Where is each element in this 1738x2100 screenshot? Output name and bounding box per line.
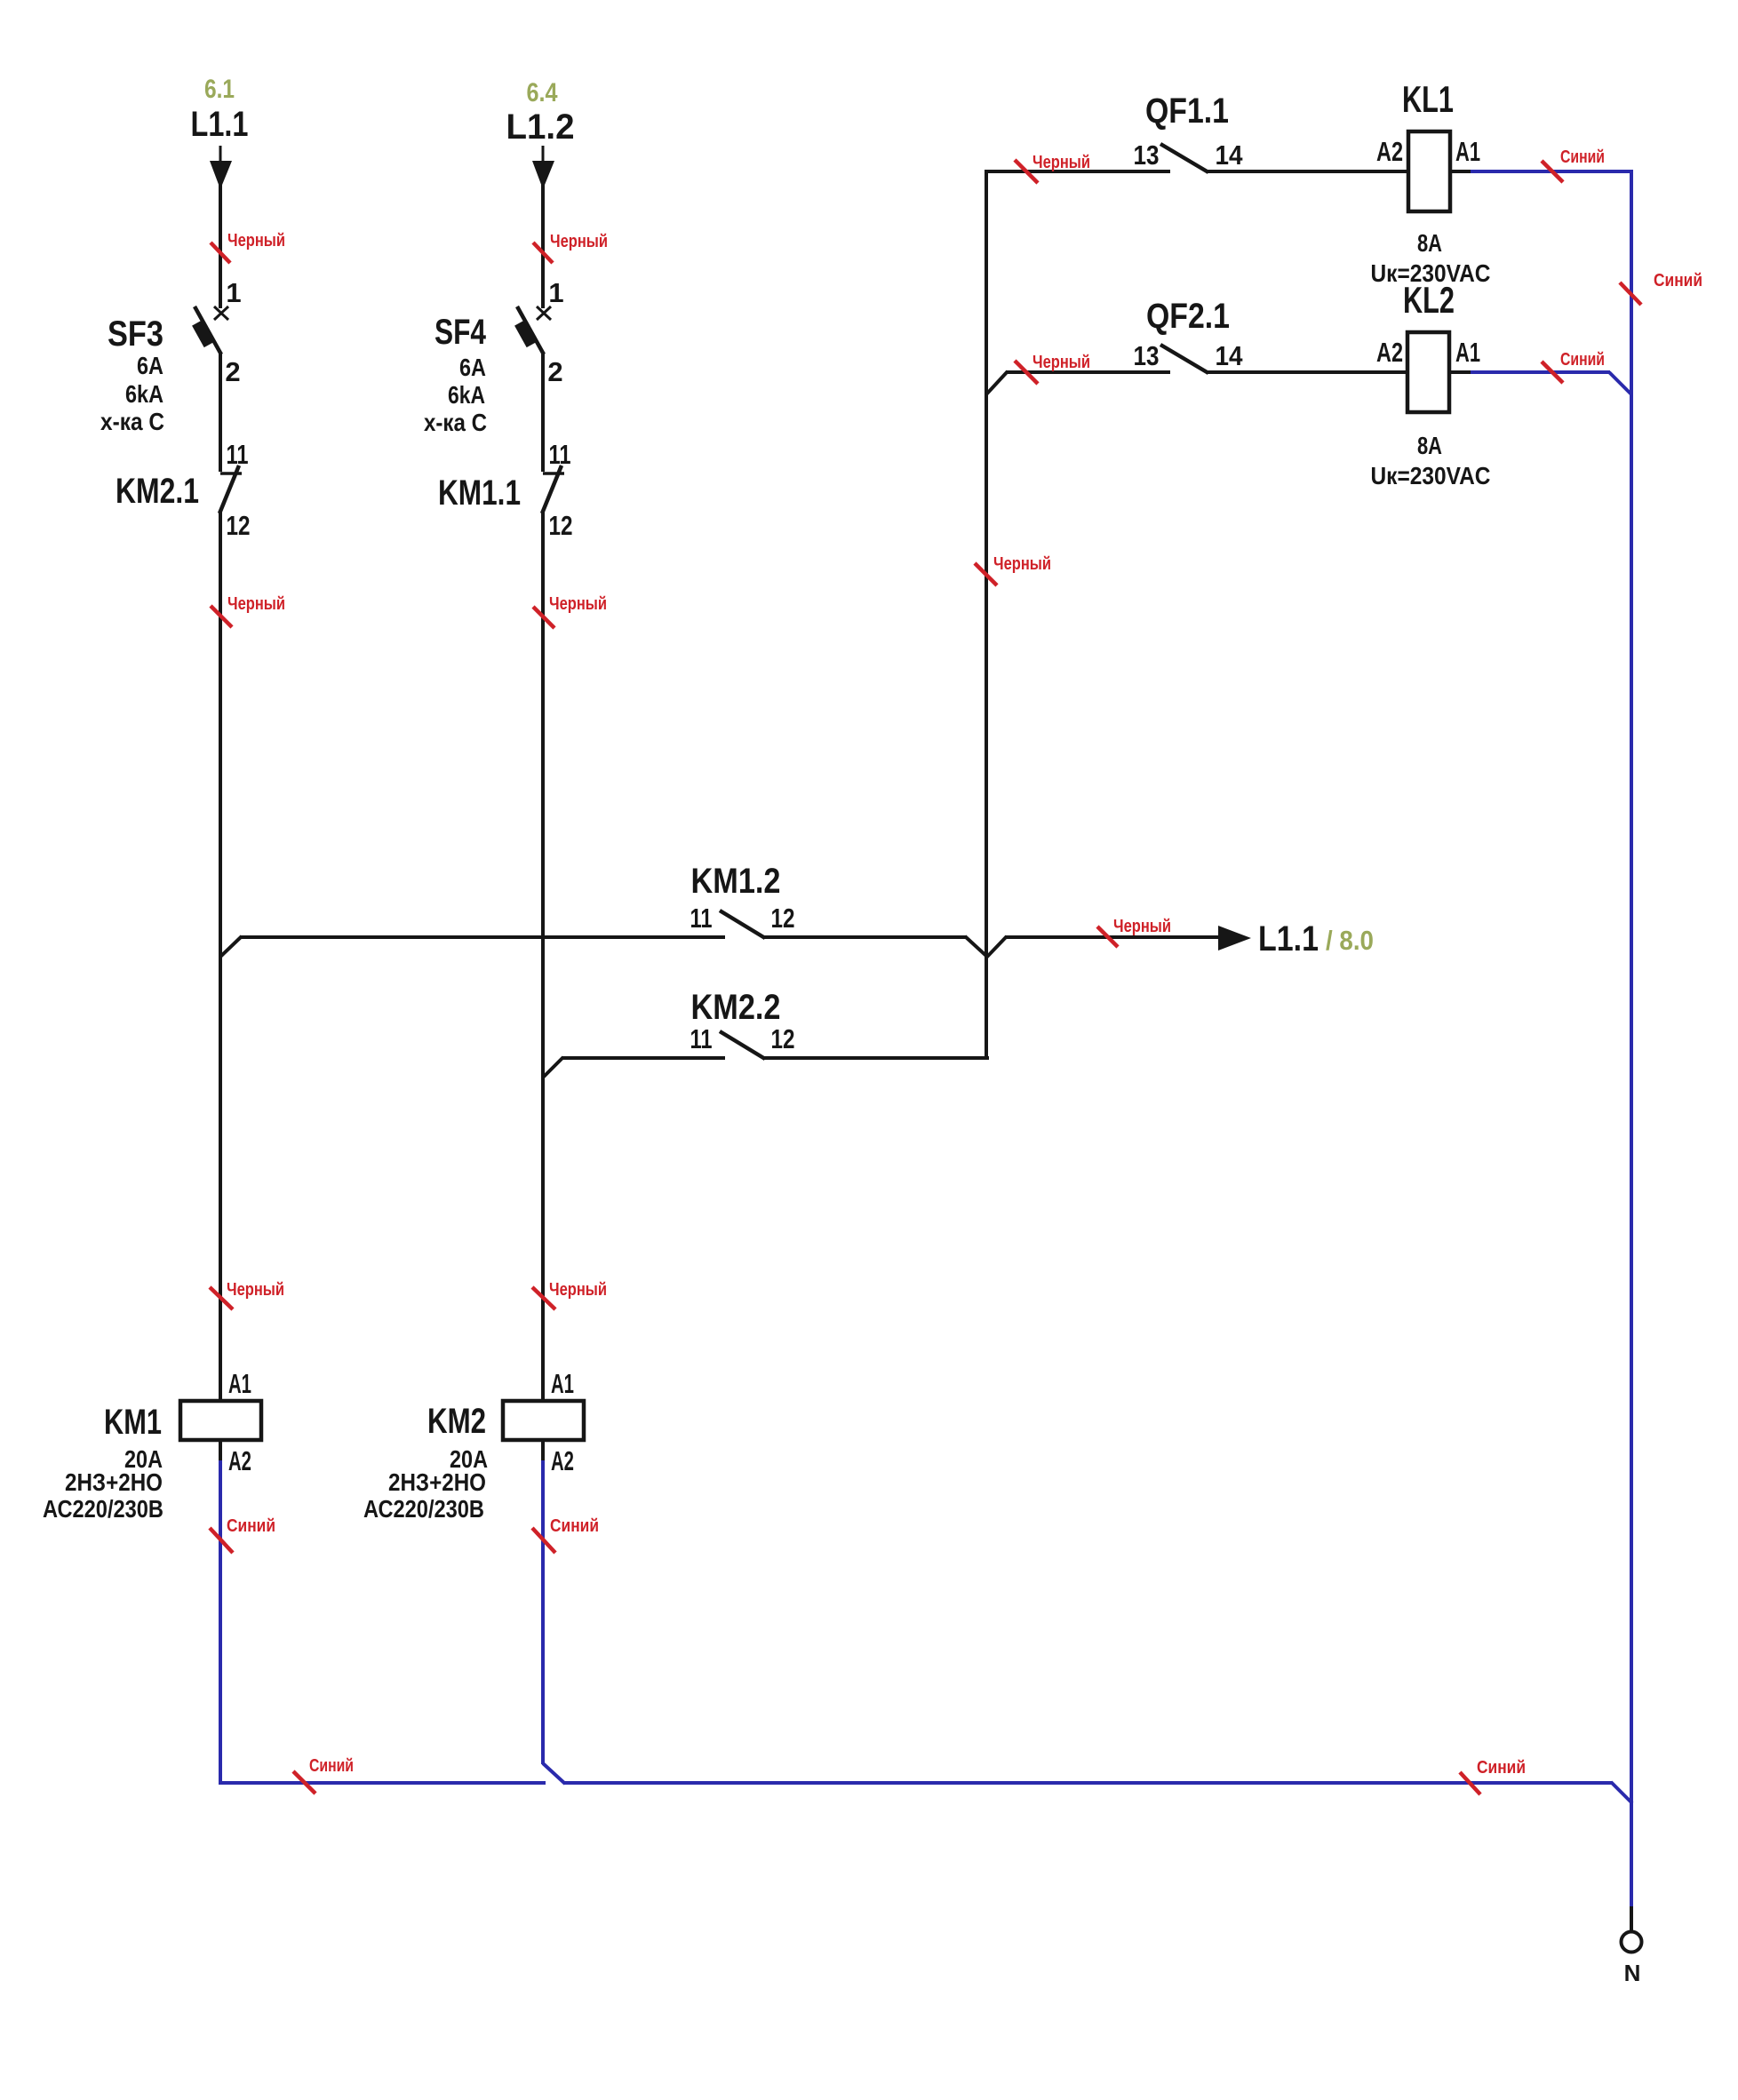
svg-text:АС220/230В: АС220/230В (363, 1495, 484, 1523)
svg-text:1: 1 (548, 277, 563, 308)
svg-text:6A: 6A (459, 354, 486, 381)
svg-text:QF2.1: QF2.1 (1146, 297, 1230, 336)
svg-text:Uк=230VAC: Uк=230VAC (1371, 259, 1491, 287)
svg-text:KL1: KL1 (1402, 78, 1454, 120)
svg-text:Синий: Синий (1654, 271, 1702, 290)
svg-text:Черный: Черный (993, 554, 1051, 574)
svg-text:Черный: Черный (549, 1280, 607, 1300)
svg-text:8A: 8A (1417, 229, 1442, 257)
svg-text:KM1: KM1 (104, 1403, 162, 1442)
svg-text:11: 11 (690, 1023, 713, 1054)
svg-text:A2: A2 (1376, 337, 1403, 368)
svg-text:Черный: Черный (550, 232, 608, 251)
svg-text:KM2.1: KM2.1 (116, 472, 199, 511)
svg-text:6.4: 6.4 (527, 78, 558, 107)
svg-text:12: 12 (549, 510, 573, 541)
svg-text:6A: 6A (137, 352, 163, 379)
svg-text:Синий: Синий (227, 1516, 275, 1536)
svg-text:SF3: SF3 (108, 314, 163, 354)
svg-text:Uк=230VAC: Uк=230VAC (1371, 462, 1491, 489)
svg-text:KM1.1: KM1.1 (438, 473, 521, 513)
svg-text:Синий: Синий (1477, 1758, 1526, 1778)
svg-text:Черный: Черный (1032, 353, 1090, 372)
svg-text:2: 2 (547, 356, 562, 387)
svg-text:A2: A2 (228, 1445, 251, 1476)
svg-text:14: 14 (1216, 340, 1244, 371)
svg-text:Черный: Черный (1113, 917, 1171, 936)
svg-text:A2: A2 (1376, 136, 1403, 167)
svg-text:11: 11 (549, 439, 571, 470)
svg-text:KM2: KM2 (427, 1402, 486, 1441)
svg-text:АС220/230В: АС220/230В (43, 1495, 163, 1523)
svg-text:Синий: Синий (309, 1756, 354, 1776)
svg-text:Черный: Черный (227, 231, 285, 251)
svg-text:A1: A1 (1455, 337, 1480, 368)
svg-text:A2: A2 (551, 1445, 574, 1476)
svg-text:х-ка С: х-ка С (424, 409, 487, 436)
svg-text:L1.2: L1.2 (506, 107, 575, 147)
svg-text:х-ка С: х-ка С (100, 408, 164, 435)
svg-text:Синий: Синий (1560, 350, 1605, 370)
svg-text:Черный: Черный (1032, 153, 1090, 172)
svg-text:Черный: Черный (227, 594, 285, 614)
svg-text:12: 12 (771, 903, 795, 934)
svg-text:/ 8.0: / 8.0 (1326, 925, 1374, 956)
svg-text:2НЗ+2НО: 2НЗ+2НО (388, 1468, 486, 1496)
svg-text:1: 1 (226, 277, 241, 308)
svg-text:Синий: Синий (1560, 147, 1605, 167)
svg-text:A1: A1 (551, 1368, 574, 1399)
svg-text:L1.1: L1.1 (191, 105, 249, 144)
svg-text:QF1.1: QF1.1 (1145, 91, 1229, 131)
svg-text:SF4: SF4 (434, 313, 487, 352)
svg-text:N: N (1624, 1960, 1641, 1986)
svg-text:2: 2 (225, 356, 240, 387)
svg-text:11: 11 (227, 439, 249, 470)
svg-text:14: 14 (1216, 139, 1244, 171)
svg-text:13: 13 (1134, 139, 1160, 171)
svg-text:KM2.2: KM2.2 (691, 988, 781, 1027)
svg-text:KM1.2: KM1.2 (691, 862, 781, 901)
svg-text:Черный: Черный (227, 1280, 284, 1300)
svg-text:12: 12 (771, 1023, 795, 1054)
svg-text:6kA: 6kA (448, 381, 485, 409)
svg-text:A1: A1 (228, 1368, 251, 1399)
svg-text:L1.1: L1.1 (1258, 919, 1319, 959)
svg-text:6.1: 6.1 (204, 75, 235, 104)
svg-text:12: 12 (227, 510, 251, 541)
svg-text:8A: 8A (1417, 432, 1442, 459)
svg-text:2НЗ+2НО: 2НЗ+2НО (65, 1468, 163, 1496)
svg-text:6kA: 6kA (125, 380, 163, 408)
svg-text:11: 11 (690, 903, 713, 934)
svg-text:Черный: Черный (549, 594, 607, 614)
svg-text:A1: A1 (1455, 136, 1480, 167)
svg-text:Синий: Синий (550, 1516, 599, 1536)
svg-text:13: 13 (1134, 340, 1160, 371)
